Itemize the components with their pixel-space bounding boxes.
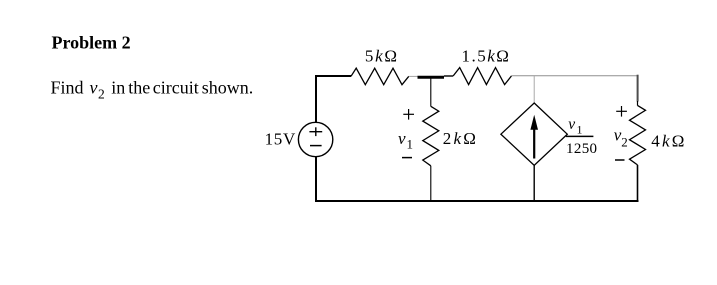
voltage source V1 15V (circle) bbox=[298, 122, 332, 156]
wire: lead into 4k resistor bbox=[637, 101, 639, 106]
wire: node bar to 1.5k resistor bbox=[444, 75, 453, 77]
svg-text:v: v bbox=[398, 129, 406, 148]
svg-text:5kΩ: 5kΩ bbox=[365, 47, 399, 66]
wire: gray segment from 5k resistor to node bar bbox=[409, 75, 418, 77]
svg-text:1250: 1250 bbox=[566, 141, 597, 157]
resistor R2 1.5kΩ (top-right zigzag) bbox=[453, 68, 511, 85]
wire: 2k branch from node bar down to resistor bbox=[430, 79, 432, 107]
resistor R1 5kΩ (top-left zigzag) bbox=[351, 68, 409, 85]
svg-text:4kΩ: 4kΩ bbox=[651, 131, 686, 150]
wire: top wire from left corner to 5k resistor bbox=[316, 76, 351, 123]
svg-text:2kΩ: 2kΩ bbox=[443, 129, 478, 148]
wire: dependent source to bottom wire bbox=[533, 165, 535, 202]
svg-text:2: 2 bbox=[621, 135, 628, 150]
svg-text:Findv2inthecircuitshown.: Findv2inthecircuitshown. bbox=[51, 77, 254, 101]
resistor R4 4kΩ (right vertical zigzag) bbox=[630, 105, 646, 164]
wire: 4k resistor to bottom wire bbox=[637, 165, 639, 202]
svg-text:15V: 15V bbox=[265, 130, 296, 149]
wire: right corner vertical segment bbox=[637, 75, 639, 102]
resistor R3 2kΩ (middle vertical zigzag) bbox=[423, 106, 439, 166]
minus sign inside source bbox=[310, 145, 322, 147]
plus sign inside source bbox=[309, 131, 322, 133]
plus sign of v1 polarity bbox=[403, 113, 414, 115]
wire: bottom wire bbox=[315, 200, 639, 202]
svg-text:1: 1 bbox=[577, 123, 583, 137]
wire: gray stub from top wire down to dependent source bbox=[533, 76, 535, 104]
minus sign of v1 polarity bbox=[402, 157, 412, 159]
plus sign of v2 polarity bbox=[616, 110, 627, 112]
svg-text:1: 1 bbox=[407, 137, 414, 152]
wire: 2k resistor to bottom wire bbox=[430, 166, 432, 202]
wire: left vertical below source bbox=[315, 157, 317, 202]
svg-text:1.5kΩ: 1.5kΩ bbox=[462, 47, 511, 66]
node A: thick node bar at top-center junction bbox=[418, 76, 445, 79]
wire: gray top wire from 1.5k resistor to right corner bbox=[512, 75, 639, 77]
dependent source B1 (diamond) bbox=[501, 103, 567, 165]
svg-text:v: v bbox=[568, 116, 575, 133]
minus sign of v2 polarity bbox=[615, 159, 625, 161]
svg-text:Problem 2: Problem 2 bbox=[52, 33, 131, 53]
arrow inside dependent source bbox=[533, 128, 535, 159]
